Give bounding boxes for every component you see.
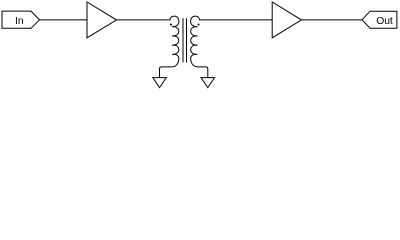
transformer core line 1 <box>182 18 184 62</box>
port Out flag <box>362 11 397 28</box>
wire T1 secondary to U2 <box>199 19 272 21</box>
wire U1 to T1 primary <box>117 19 171 21</box>
polarity dot primary <box>170 24 172 26</box>
ground primary <box>153 78 167 88</box>
wire T1 secondary bottom to ground <box>198 67 208 78</box>
svg-text:In: In <box>15 16 24 27</box>
transformer T1 primary winding <box>170 16 179 67</box>
wire In to U1 <box>40 19 88 21</box>
port In flag <box>2 11 40 28</box>
buffer amplifier U1 <box>87 2 117 38</box>
wire T1 primary bottom to ground <box>160 67 172 78</box>
svg-text:Out: Out <box>376 16 393 27</box>
transformer T1 secondary winding <box>191 16 200 67</box>
polarity dot secondary <box>197 24 199 26</box>
wire U2 to Out <box>302 19 363 21</box>
buffer amplifier U2 <box>272 2 301 38</box>
ground secondary <box>201 78 215 88</box>
transformer core line 2 <box>186 18 188 62</box>
